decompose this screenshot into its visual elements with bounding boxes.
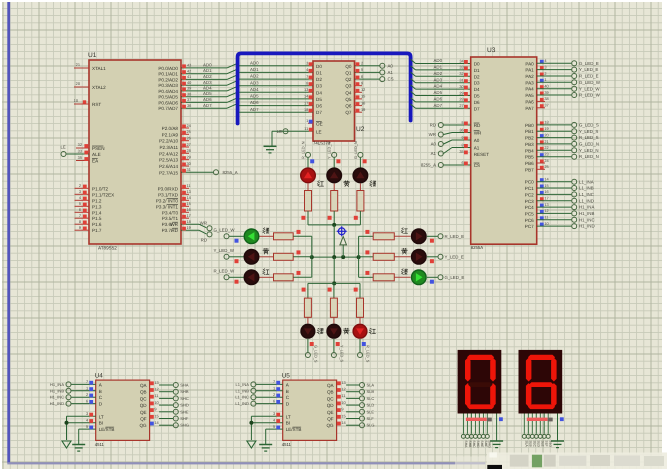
svg-text:INT0: INT0: [168, 198, 178, 203]
svg-text:RD: RD: [201, 238, 207, 243]
U4 pin C (2) net H1_INC: [71, 396, 96, 398]
wire resistor to bracket west 1: [293, 256, 312, 258]
svg-text:2: 2: [273, 392, 275, 397]
svg-text:CS: CS: [474, 163, 480, 168]
svg-text:QD: QD: [140, 403, 148, 408]
svg-text:OE: OE: [316, 121, 323, 126]
svg-text:P3.4/T0: P3.4/T0: [162, 210, 179, 215]
resistor R_S2: [330, 298, 337, 317]
terminal H1_INC: [572, 217, 577, 222]
svg-text:R_LED_W: R_LED_W: [579, 93, 601, 98]
svg-text:37: 37: [544, 103, 548, 108]
resistor R_S3: [357, 298, 364, 317]
svg-text:12: 12: [544, 208, 548, 213]
svg-text:16: 16: [361, 100, 365, 105]
svg-text:AD2: AD2: [250, 74, 259, 79]
svg-text:QB: QB: [140, 390, 147, 395]
window border bottom (purple): [7, 462, 485, 464]
terminal Y_LED_N (north): [332, 152, 337, 157]
junction center-left: [310, 255, 314, 259]
terminal H1_INA: [66, 382, 71, 387]
svg-text:5: 5: [462, 120, 464, 125]
svg-text:PA3: PA3: [525, 80, 534, 85]
svg-text:19: 19: [361, 107, 365, 112]
segment d of DSP2: [528, 404, 555, 409]
U1 pin P3.4/T0 (16): [181, 211, 189, 213]
wire terminal to LED west 1: [229, 256, 243, 258]
terminal H1_IND: [572, 224, 577, 229]
svg-text:U3: U3: [487, 47, 496, 54]
svg-text:BI: BI: [99, 421, 103, 426]
svg-text:U2: U2: [356, 126, 365, 133]
terminal SLA: [360, 383, 365, 388]
svg-text:P3.3/: P3.3/: [156, 204, 167, 209]
terminal H1_IND: [66, 401, 71, 406]
U2 pin D5 wire from bus, net AD5: [239, 98, 313, 100]
svg-text:27: 27: [187, 142, 191, 147]
wire rail to resistor south 2: [359, 283, 361, 298]
svg-text:AD3: AD3: [434, 77, 443, 82]
svg-text:P1.2: P1.2: [92, 198, 102, 203]
svg-text:P1.1/T2EX: P1.1/T2EX: [92, 192, 114, 197]
U1 pin P3.5/T1 (17): [181, 217, 189, 219]
svg-text:AD3: AD3: [203, 80, 212, 85]
svg-text:P1.7: P1.7: [92, 228, 102, 233]
svg-text:22: 22: [544, 145, 548, 150]
svg-text:A0: A0: [388, 63, 394, 68]
terminal G_LED_N (north): [358, 152, 363, 157]
terminal H1_INC: [66, 395, 71, 400]
svg-text:PC6: PC6: [525, 218, 534, 223]
svg-text:SLG: SLG: [367, 423, 375, 428]
origin marker (blue crosshair): [337, 226, 347, 236]
svg-text:SHG: SHG: [180, 423, 189, 428]
U3 pin D5 (29): [464, 92, 468, 96]
U3 pin RESET (35): [464, 151, 468, 155]
svg-text:L1_INB: L1_INB: [236, 388, 250, 393]
svg-text:9: 9: [462, 135, 464, 140]
svg-text:33: 33: [78, 149, 82, 154]
U1 pin P2.0/A8 (24): [181, 127, 189, 129]
svg-text:1: 1: [86, 386, 88, 391]
U1 pin P1.4 (6): [75, 211, 90, 213]
svg-text:9: 9: [79, 225, 81, 230]
svg-text:PC1: PC1: [525, 186, 534, 191]
svg-text:SHB: SHB: [468, 441, 472, 449]
svg-text:QE: QE: [327, 410, 334, 415]
wire LE to earth U4: [78, 429, 80, 444]
resistor R_N2: [331, 191, 338, 212]
LED Y_LED_E: [411, 249, 427, 265]
terminal L1_IND: [572, 198, 577, 203]
wire north rail to center: [333, 225, 335, 257]
svg-text:SHC: SHC: [472, 441, 476, 449]
svg-text:33: 33: [459, 65, 463, 70]
svg-text:L1_INC: L1_INC: [579, 192, 594, 197]
svg-text:SLD: SLD: [367, 403, 375, 408]
svg-text:D3: D3: [474, 81, 480, 86]
svg-text:3: 3: [544, 64, 546, 69]
svg-text:H1_INA: H1_INA: [50, 382, 64, 387]
svg-text:P1.0/T2: P1.0/T2: [92, 186, 109, 191]
window border left (blue): [7, 2, 10, 463]
svg-text:PB6: PB6: [525, 161, 534, 166]
west bracket wire: [311, 236, 313, 277]
svg-text:P3.2/: P3.2/: [156, 198, 167, 203]
junction arrow stub: [341, 255, 345, 259]
terminal WR: [438, 132, 443, 137]
svg-text:AD6: AD6: [434, 97, 443, 102]
svg-text:P3.5/T1: P3.5/T1: [162, 216, 179, 221]
svg-text:5: 5: [79, 201, 81, 206]
LED R_LED_E: [411, 228, 427, 244]
svg-text:P3.0/RXD: P3.0/RXD: [158, 186, 179, 191]
terminal SHD: [173, 403, 178, 408]
LED D1 R_LED_N: [300, 167, 316, 183]
wire resistor to LED south 0: [307, 317, 309, 323]
wire bus to U3 D6, net AD6: [411, 98, 416, 102]
wire rail to resistor south 0: [307, 283, 309, 298]
LED D3 G_LED_N: [352, 167, 368, 183]
svg-text:G_LED_W: G_LED_W: [214, 228, 236, 233]
svg-text:5: 5: [361, 67, 363, 72]
segment a of DSP1: [467, 355, 494, 360]
svg-text:AT89S52: AT89S52: [98, 246, 117, 251]
svg-text:P2.0/A8: P2.0/A8: [162, 126, 179, 131]
svg-text:32: 32: [78, 142, 82, 147]
svg-text:Q4: Q4: [345, 90, 352, 95]
svg-text:A0: A0: [431, 141, 437, 146]
svg-text:G_LED_W: G_LED_W: [579, 80, 601, 85]
svg-text:D7: D7: [474, 106, 480, 111]
svg-text:Q6: Q6: [345, 104, 352, 109]
U4 pin BI (4): [67, 422, 96, 424]
wire LED to terminal south 0: [307, 339, 309, 353]
ground (earth) U4: [72, 444, 85, 446]
segment a of DSP2: [528, 355, 555, 360]
resistor R_N1: [305, 191, 312, 212]
U3 pin WR (36): [444, 133, 453, 135]
svg-text:D1: D1: [474, 68, 480, 73]
svg-text:R_LED_S: R_LED_S: [579, 135, 599, 140]
svg-text:SLC: SLC: [367, 396, 375, 401]
svg-text:35: 35: [459, 149, 463, 154]
svg-text:29: 29: [187, 155, 191, 160]
U2 pin D7 wire from bus, net AD7: [239, 111, 313, 113]
svg-text:13: 13: [154, 380, 158, 385]
U2 pin LE (11) + terminal LE: [272, 130, 313, 132]
U1 pin P2.3/A11 (27): [181, 146, 189, 148]
svg-text:G_LED_E: G_LED_E: [445, 275, 465, 280]
svg-text:PB1: PB1: [525, 129, 534, 134]
svg-text:11: 11: [304, 126, 308, 131]
svg-text:SLA: SLA: [525, 441, 529, 448]
U1 pin P1.7 (9): [75, 229, 90, 231]
svg-text:AD7: AD7: [250, 107, 259, 112]
U1 pin P1.0/T2 (2): [75, 187, 90, 189]
svg-text:37: 37: [187, 97, 191, 102]
svg-text:A1: A1: [431, 151, 437, 156]
terminal 8255_A (to U3 CS): [438, 163, 443, 168]
wire terminal to LED 2 north: [359, 158, 361, 168]
svg-text:AD7: AD7: [434, 103, 443, 108]
resistor R_E1: [373, 233, 394, 240]
display DSP2 pin 6 terminal: [542, 434, 546, 438]
svg-text:LE: LE: [61, 145, 66, 150]
svg-text:8: 8: [462, 142, 464, 147]
wire terminal to LED 1 north: [333, 158, 335, 168]
terminal SLB: [360, 389, 365, 394]
wire terminal to LED west 2: [229, 276, 243, 278]
U3 pin D1 (33): [464, 66, 468, 70]
wire LED to terminal east 0: [427, 235, 438, 237]
svg-text:28: 28: [459, 97, 463, 102]
decoder U4 4511 body: [96, 380, 150, 440]
terminal A0: [438, 142, 443, 147]
ground (earth) U5: [259, 444, 272, 446]
svg-text:D4: D4: [474, 87, 480, 92]
display DSP1 pin 5 wire: [478, 414, 480, 434]
svg-text:AD5: AD5: [250, 94, 259, 99]
svg-text:PB2: PB2: [525, 136, 534, 141]
LED Y_LED_W: [244, 249, 260, 265]
ground (triangle) U5: [247, 441, 256, 448]
display DSP2 pin 5 terminal: [538, 434, 542, 438]
svg-text:P0.1/AD1: P0.1/AD1: [158, 72, 178, 77]
terminal H1_INB: [66, 388, 71, 393]
svg-text:AD0: AD0: [203, 63, 212, 68]
LED G_LED_E: [411, 269, 427, 285]
display DSP1 pin 1 wire: [462, 414, 464, 434]
terminal SLE: [360, 409, 365, 414]
svg-text:LT: LT: [286, 414, 291, 419]
svg-text:15: 15: [361, 94, 365, 99]
svg-text:Y_LED_S: Y_LED_S: [579, 129, 598, 134]
display DSP1 pin 6 terminal: [481, 434, 485, 438]
svg-text:38: 38: [187, 92, 191, 97]
wire resistor to bracket west 2: [293, 276, 312, 278]
microcontroller U1 AT89S52 body: [89, 60, 181, 244]
svg-text:WR: WR: [200, 221, 207, 226]
U1 pin XTAL2 (20): [74, 86, 89, 88]
U4 pin D (6) net H1_IND: [71, 403, 96, 405]
svg-text:AD0: AD0: [250, 60, 259, 65]
svg-text:G_LED_S: G_LED_S: [579, 123, 599, 128]
svg-text:18: 18: [544, 120, 548, 125]
svg-text:PC2: PC2: [525, 192, 534, 197]
U2 pin D3 wire from bus, net AD3: [239, 85, 313, 87]
svg-text:PA7: PA7: [525, 106, 534, 111]
display DSP1 pin 4 wire: [474, 414, 476, 434]
svg-text:QA: QA: [140, 383, 148, 388]
terminal L1_INB: [251, 388, 256, 393]
svg-text:P1.4: P1.4: [92, 210, 102, 215]
svg-text:L1_INA: L1_INA: [236, 382, 250, 387]
wire rail to resistor south 1: [333, 283, 335, 298]
U1 pin P1.6 (8): [75, 223, 90, 225]
svg-text:D5: D5: [316, 97, 322, 102]
terminal R_LED_E (east): [438, 234, 443, 239]
svg-text:PB0: PB0: [525, 123, 534, 128]
U3 pin D0 (34): [464, 60, 468, 64]
display DSP1 pin 3 wire: [470, 414, 472, 434]
svg-text:6: 6: [273, 398, 275, 403]
svg-text:AD1: AD1: [203, 68, 212, 73]
wire bus to U3 D1, net AD1: [411, 66, 416, 70]
U5 pin D (6) net L1_IND: [256, 403, 283, 405]
svg-text:PSEN: PSEN: [92, 146, 105, 151]
terminal WR: [207, 226, 212, 231]
display DSP2 pin 1 wire: [523, 414, 525, 434]
svg-text:11: 11: [341, 393, 345, 398]
svg-text:L1_INC: L1_INC: [235, 395, 249, 400]
svg-text:D5: D5: [474, 94, 480, 99]
svg-text:P2.1/A9: P2.1/A9: [162, 132, 179, 137]
display DSP2 pin highlight bar: [527, 418, 548, 421]
U2 pin D2 wire from bus, net AD2: [239, 78, 313, 80]
U3 pin CS (6): [444, 164, 471, 166]
U1 pin P2.4/A12 (28): [181, 152, 189, 154]
segment g of DSP2: [529, 382, 554, 387]
svg-text:G_LED_S: G_LED_S: [313, 345, 318, 363]
svg-text:SLF: SLF: [367, 416, 375, 421]
svg-text:RD: RD: [171, 228, 178, 233]
wire bus to U3 D4, net AD4: [411, 85, 416, 89]
LED D2 Y_LED_N: [326, 167, 342, 183]
svg-text:8255A: 8255A: [471, 245, 484, 250]
wire bus to U3 D0, net AD0: [411, 59, 416, 63]
terminal SLG: [360, 423, 365, 428]
svg-text:D1: D1: [316, 70, 322, 75]
svg-text:L1_INA: L1_INA: [579, 179, 594, 184]
terminal L1_INB: [572, 186, 577, 191]
svg-text:SLF: SLF: [545, 441, 549, 447]
svg-text:17: 17: [304, 100, 308, 105]
svg-text:G_LED_N: G_LED_N: [353, 141, 358, 159]
U4 pin B (1) net H1_INB: [71, 390, 96, 392]
svg-text:D3: D3: [316, 84, 322, 89]
wire resistor to LED south 2: [359, 317, 361, 323]
svg-text:Y_LED_W: Y_LED_W: [214, 248, 235, 253]
junction north rail: [332, 223, 336, 227]
svg-text:PA2: PA2: [525, 74, 534, 79]
U1 pin P3.7/RD (19): [181, 229, 199, 231]
svg-text:P2.6/A14: P2.6/A14: [159, 164, 178, 169]
svg-text:9: 9: [154, 407, 156, 412]
latch U2 74LS373 body: [313, 61, 355, 141]
terminal SLD: [360, 403, 365, 408]
svg-text:12: 12: [154, 387, 158, 392]
wire terminal to LED 0 north: [307, 158, 309, 168]
svg-text:U5: U5: [282, 373, 291, 380]
resistor R_W1: [274, 233, 294, 240]
terminal R_LED_S (south): [358, 353, 363, 358]
svg-text:6: 6: [462, 160, 464, 165]
wire LED to terminal south 2: [359, 339, 361, 353]
svg-text:P1.5: P1.5: [92, 216, 102, 221]
segment b of DSP2: [551, 358, 557, 382]
svg-text:Q2: Q2: [345, 77, 352, 82]
svg-text:QE: QE: [140, 410, 147, 415]
svg-text:U4: U4: [95, 373, 104, 380]
svg-text:3: 3: [273, 411, 275, 416]
svg-text:PA0: PA0: [525, 61, 534, 66]
svg-text:H1_INC: H1_INC: [579, 217, 595, 222]
decoder U5 4511 body: [283, 380, 337, 440]
U1 pin P0.6/AD6 (37) wire to bus: [181, 101, 227, 103]
terminal SLC: [360, 396, 365, 401]
svg-text:39: 39: [187, 86, 191, 91]
U2 pin D4 wire from bus, net AD4: [239, 91, 313, 93]
LED Y_LED_S: [326, 324, 341, 339]
display DSP2 pin 3 wire: [531, 414, 533, 434]
svg-text:38: 38: [544, 96, 548, 101]
svg-text:SHD: SHD: [476, 441, 480, 449]
svg-text:1: 1: [306, 118, 308, 123]
svg-text:PB5: PB5: [525, 155, 534, 160]
svg-text:D0: D0: [316, 64, 322, 69]
U5 pin BI (4): [251, 422, 282, 424]
svg-text:13: 13: [304, 87, 308, 92]
svg-text:D6: D6: [474, 100, 480, 105]
svg-text:1: 1: [544, 77, 546, 82]
U1 pin P2.2/A10 (26): [181, 140, 189, 142]
svg-text:Q7: Q7: [345, 110, 352, 115]
svg-text:29: 29: [459, 90, 463, 95]
display DSP2 pin 2 terminal: [526, 434, 530, 438]
svg-text:31: 31: [187, 167, 191, 172]
terminal SHG: [173, 423, 178, 428]
terminal G_LED_S (south): [305, 353, 310, 358]
svg-text:QD: QD: [327, 403, 335, 408]
U1 pin P3.6/WR (18): [181, 223, 199, 225]
display DSP2 pin 1 terminal: [522, 434, 526, 438]
U1 pin P2.5/A13 (29): [181, 159, 189, 161]
svg-text:32: 32: [459, 71, 463, 76]
svg-text:15: 15: [187, 201, 191, 206]
svg-text:SHE: SHE: [180, 409, 189, 414]
svg-text:PC3: PC3: [525, 199, 534, 204]
LED R_LED_S: [352, 324, 367, 339]
wire LE to earth U5: [265, 429, 267, 444]
svg-text:Y_LED_E: Y_LED_E: [579, 67, 598, 72]
svg-text:SLB: SLB: [529, 441, 533, 448]
U2 pin D1 wire from bus, net AD1: [239, 71, 313, 73]
wire LED to resistor west 1: [260, 256, 274, 258]
U5 pin C (2) net L1_INC: [256, 396, 283, 398]
svg-text:Y_LED_N: Y_LED_N: [579, 148, 599, 153]
segment c of DSP1: [490, 383, 496, 407]
svg-text:PC7: PC7: [525, 224, 534, 229]
svg-text:RESET: RESET: [474, 152, 490, 157]
svg-text:AD1: AD1: [434, 65, 443, 70]
svg-text:D0: D0: [474, 62, 480, 67]
svg-text:LE: LE: [277, 129, 282, 134]
terminal L1_IND: [251, 401, 256, 406]
terminal Y_LED_S: [572, 129, 577, 134]
svg-text:D2: D2: [316, 77, 322, 82]
svg-text:H1_INA: H1_INA: [579, 205, 594, 210]
U1 pin EA (35): [76, 160, 89, 162]
terminal Y_LED_E (east): [438, 254, 443, 259]
LED R_LED_W: [244, 269, 260, 285]
U5 pin LT (3): [251, 415, 282, 417]
svg-text:QF: QF: [140, 417, 147, 422]
U1 pin P0.4/AD4 (39) wire to bus: [181, 90, 227, 92]
ground (triangle) U4: [62, 441, 71, 448]
U2 pin OE (1): [308, 122, 313, 124]
svg-text:21: 21: [76, 62, 80, 67]
